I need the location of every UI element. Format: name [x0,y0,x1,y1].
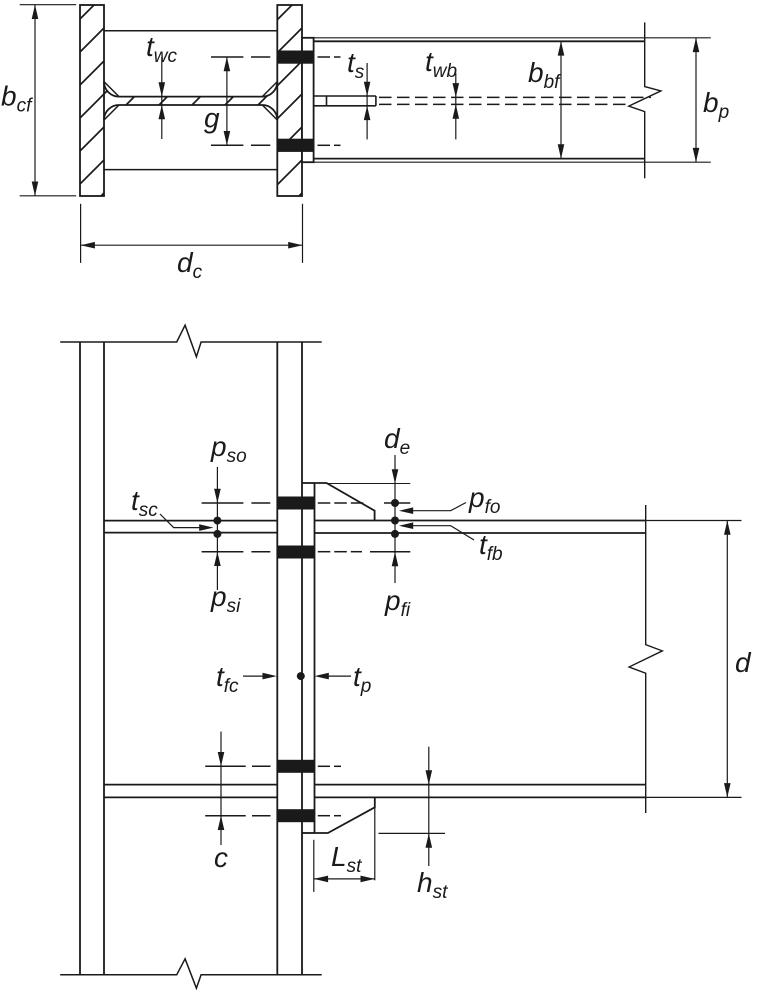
node dot at flange/plate interface [297,672,305,680]
svg-text:bbf: bbf [528,57,561,93]
dimension p_so [214,467,221,590]
column left flange (plan, hatched) [80,5,104,196]
svg-text:bp: bp [703,87,729,123]
dimension d_e / p_fi line [392,455,399,583]
dimension b_cf [20,5,76,196]
bolt (elevation, inner top) [277,546,314,559]
bolt (plan, upper) [277,51,313,64]
continuity plate edges (plan) [104,31,277,170]
leader t_sc [160,514,214,531]
beam web hidden lines (plan) [379,97,651,104]
svg-text:pfo: pfo [468,482,500,518]
svg-text:tsc: tsc [131,485,158,521]
svg-text:dc: dc [177,247,203,283]
dimension p_si [214,552,221,566]
svg-text:c: c [214,842,228,873]
beam flange edges (plan) [314,41,645,158]
bolt (plan, lower) [277,139,313,152]
top end-plate stiffener (elevation) [315,483,375,521]
svg-text:tp: tp [353,661,371,697]
leader p_fo [399,503,466,515]
dimension d [646,521,742,798]
bolt (elevation, outer bottom) [277,809,314,822]
svg-text:de: de [384,423,410,459]
svg-text:twb: twb [425,46,457,82]
bolt (elevation, outer top) [277,497,314,510]
dimension t_s [364,63,371,139]
beam top flange (elevation) [315,521,646,534]
dimension t_wc [159,57,166,139]
dimension h_st [379,747,446,866]
column top break line [60,325,322,357]
leader t_fb [399,522,474,540]
leader t_fc [243,673,277,680]
bolt row line, inner bottom [205,765,341,767]
svg-text:Lst: Lst [331,841,362,877]
svg-text:tfb: tfb [479,529,503,565]
svg-text:twc: twc [146,31,178,67]
end plate edge extension lines (plan) [314,38,711,162]
bolt row line, outer top [202,502,411,504]
column bottom break line [60,959,322,988]
bolt row line, outer bottom [205,815,341,817]
svg-text:ts: ts [347,47,365,83]
svg-text:g: g [204,103,220,134]
node dots on p_so line [213,517,221,538]
dimension d_c [81,204,303,263]
dimension c [218,732,225,845]
column right flange (plan, hatched) [277,5,302,196]
beam break line (elevation) [629,505,662,813]
bolt row line, inner top [202,551,411,553]
dimension g [224,57,231,145]
dimension t_wb [453,73,460,139]
node dots on d_e line [391,499,399,538]
svg-text:tfc: tfc [216,661,239,697]
beam break line (plan) [629,22,661,178]
svg-text:hst: hst [417,867,448,903]
svg-text:psi: psi [210,581,241,617]
svg-text:bcf: bcf [1,81,33,117]
end plate (plan) [302,38,314,162]
continuity plates (elevation) [104,521,277,798]
end-plate stiffener edge strip (plan) [314,96,376,106]
dimension b_bf [558,41,565,158]
dimension b_p [693,38,700,162]
svg-text:pfi: pfi [384,585,411,621]
end plate (elevation) [302,483,315,833]
column web with fillets (plan, hatched) [104,82,277,120]
leader t_p [315,673,352,680]
bolt gauge lines (plan) [211,57,341,145]
bottom end-plate stiffener (elevation) [315,797,375,833]
stiffener top edge extension line [327,483,411,485]
beam bottom flange (elevation) [315,785,646,798]
svg-text:d: d [735,647,752,678]
bolt (elevation, inner bottom) [277,760,314,773]
svg-text:pso: pso [210,431,247,467]
column flange lines (elevation) [80,342,302,975]
dimension L_st [314,801,375,892]
